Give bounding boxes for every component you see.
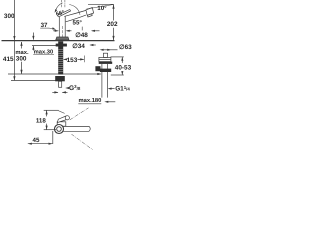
svg-text:55°: 55° <box>73 19 83 26</box>
svg-text:∅63: ∅63 <box>119 44 132 51</box>
svg-text:∅48: ∅48 <box>75 32 88 39</box>
svg-text:10°: 10° <box>97 5 107 12</box>
svg-text:153: 153 <box>67 57 78 64</box>
svg-text:∅34: ∅34 <box>72 43 85 50</box>
svg-text:202: 202 <box>107 21 118 28</box>
svg-text:300: 300 <box>4 13 15 20</box>
svg-text:118: 118 <box>36 117 47 124</box>
svg-text:300: 300 <box>16 56 27 63</box>
svg-text:max.180: max.180 <box>79 97 102 104</box>
svg-text:G11/4: G11/4 <box>115 85 130 93</box>
svg-text:45: 45 <box>33 137 40 144</box>
svg-text:max.30: max.30 <box>34 48 54 55</box>
svg-text:415: 415 <box>3 56 14 63</box>
svg-text:40-53: 40-53 <box>115 65 132 72</box>
svg-text:37: 37 <box>41 22 48 29</box>
